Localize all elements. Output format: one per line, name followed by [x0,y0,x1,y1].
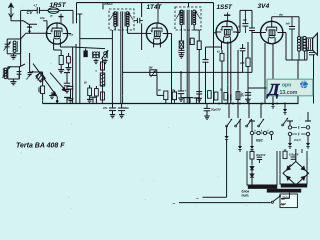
battery B2 [289,121,291,125]
gang link 2 [50,73,66,92]
power box 1 [247,151,277,185]
tube V4 3V4 [261,21,283,43]
svg-text:1M: 1M [149,66,154,70]
antenna [10,5,12,21]
IFT2 secondary [193,10,196,13]
svg-text:7t: 7t [50,14,52,18]
ground [58,69,64,71]
svg-text:пит.: пит. [242,193,250,197]
svg-text:20µ/15V: 20µ/15V [255,154,266,157]
resistor R7 [221,50,223,53]
wire [80,38,113,40]
wire [221,42,223,50]
resistor R4 [95,86,97,89]
ground [68,98,74,100]
osc trimmer [101,50,108,59]
core [186,10,188,104]
svg-text:3V4: 3V4 [258,3,270,10]
capacitor C7 [68,53,70,56]
wire [11,20,21,22]
capacitor C12 [196,91,202,93]
tuning gang C3 [6,39,8,54]
wire [156,75,158,95]
wire [102,57,104,104]
coil L3 [13,41,16,44]
resistor R2 [42,72,44,86]
speaker LS1 [307,38,313,50]
tube V1 1R5T [46,23,67,44]
trimmer C5 [68,85,74,87]
wire AF line [123,71,252,73]
IFT2 primary [180,10,183,13]
svg-text:10p: 10p [40,16,45,20]
core bar [248,185,277,188]
resistor R9 [214,92,218,100]
power switch S6 [271,201,273,203]
output transformer T3 [297,36,300,39]
wire [272,44,274,104]
svg-text:1R5T: 1R5T [50,2,67,9]
wire [313,96,315,104]
resistor R12 [251,149,253,151]
wire [214,32,217,34]
wire [53,43,55,50]
chassis cap [64,96,70,98]
svg-text:455kHz: 455kHz [103,3,113,6]
electrolytic C19 [206,104,208,109]
resistor R13 [284,149,286,151]
capacitor C21 [291,156,296,158]
wire grid [26,32,47,34]
svg-text:KBC: KBC [256,138,264,142]
tube V3 1S5T [216,21,238,43]
capacitor C10 [203,59,209,61]
wire [157,3,159,23]
wire [75,44,77,104]
wire [297,60,299,104]
capacitor C13 [180,72,182,90]
svg-text:1S5T: 1S5T [217,4,233,11]
wire [42,9,49,11]
wire [76,47,105,48]
wire [289,136,291,141]
capacitor C9 [136,18,138,23]
wire [179,202,271,204]
svg-text:40n: 40n [124,107,130,110]
resistor R10 [208,91,212,99]
coil L7 [100,73,104,86]
core bar [281,184,307,187]
wire [226,141,228,197]
wire [281,197,290,199]
wire [271,17,273,22]
wire [68,33,71,35]
trimmer arrows [176,11,181,19]
svg-text:10n: 10n [240,94,245,97]
wire [283,32,286,34]
wire [236,32,240,34]
svg-text:+: + [185,89,187,93]
wire [141,3,143,17]
IFT1 primary [114,12,117,15]
capacitor C27 [309,51,315,53]
ground [245,98,250,100]
wire [127,30,129,33]
power box 2 [280,151,307,184]
bridge rectifier [283,161,309,185]
capacitor C17 [112,104,114,108]
wire [193,25,195,30]
wire [239,120,241,144]
dot [56,100,59,103]
trimmer arrow [2,66,10,78]
capacitor C16 [291,17,293,26]
wire [221,43,223,47]
diode D1 [250,166,254,169]
svg-text:20µ/15V: 20µ/15V [210,108,221,112]
wire [21,34,26,39]
paper speckles [203,6,206,9]
resistor R3 [89,85,91,88]
grid cap C2 [29,24,31,33]
switch S5 [284,104,286,108]
svg-text:Terta BA 408 F: Terta BA 408 F [16,143,65,150]
IFT1 secondary [126,12,129,15]
dot [180,71,182,73]
wire [313,55,315,104]
label box [280,194,297,208]
wire [159,43,161,48]
wire [264,43,266,104]
capacitor C22 [244,10,246,23]
svg-text:4,7: 4,7 [33,4,38,8]
switch S2 [237,104,239,119]
capacitor C15 [245,92,251,94]
wire [21,21,37,24]
wire bottom bus [43,103,299,105]
wire [20,10,22,66]
wire [251,135,253,144]
svg-text:47n: 47n [102,107,108,110]
svg-text:3n9: 3n9 [286,22,291,25]
resistor R18 [190,38,194,44]
wire [251,170,253,174]
capacitor C8 [66,72,68,83]
IF transformer T1 box [109,9,134,30]
wire [188,3,190,7]
wire [30,71,43,73]
resistor R17 [224,92,228,100]
wire top bus [77,2,214,4]
wire [226,126,228,134]
IF transformer T2 box [175,7,201,30]
switch S3 [248,104,250,119]
trimmer arrows [110,12,115,20]
watermark badge [267,79,313,96]
chassis caps [181,97,187,99]
coupling cap C14 [251,10,253,27]
wire AVC [248,87,273,89]
svg-text:~: ~ [173,202,176,207]
grid cap top C6 [59,16,64,18]
wire [168,33,172,35]
wire [227,42,229,104]
resistor R5 [164,91,168,100]
coil L5 [85,49,87,51]
wire [153,43,155,48]
wire [79,14,81,104]
capacitor C18 [121,104,123,108]
wire [43,20,47,22]
wire [59,43,61,47]
capacitor C26 [180,48,182,50]
wire [114,27,116,30]
wire [237,50,239,104]
core bar lower [267,189,301,192]
osc transformer L6 [93,52,96,55]
wire [72,47,74,104]
tube V2 1T4T [146,23,167,44]
diode D2 [250,174,254,177]
svg-text:4n5: 4n5 [239,62,245,65]
trimmer C25 [179,41,183,48]
wire [59,9,73,11]
wire [180,25,182,41]
ground [51,92,53,95]
ground [10,81,16,83]
wire [19,64,25,67]
svg-text:13.com: 13.com [280,90,298,96]
resistor R14 [101,92,105,100]
dial drive link [33,64,57,97]
wire [21,9,36,11]
connector [272,101,274,103]
grid cap V3 [224,14,230,16]
wire [171,34,173,104]
resistor R16 [101,62,105,70]
core [120,11,122,103]
capacitor C28 [172,89,175,91]
wire [230,42,232,104]
switch S4 [260,104,262,119]
chassis cap [90,96,96,98]
wire [271,135,273,140]
capacitor C11 [240,47,246,49]
oscillator coil L4 [7,67,9,79]
wire [29,75,31,77]
wire [102,3,104,10]
capacitor C20 [251,159,253,165]
wire [298,51,300,60]
svg-text:1T4T: 1T4T [147,4,163,11]
wire [295,149,297,161]
switch S1 [228,104,230,119]
ground [66,67,72,69]
ground [11,55,17,57]
battery B1 KBS [251,120,253,131]
resistor R6 [197,41,201,50]
padder trimmer [26,71,33,80]
svg-text:100µ/8V: 100µ/8V [289,154,299,157]
capacitor C24 [227,94,229,100]
volume pot 1M [150,70,157,76]
svg-text:орн: орн [282,82,291,88]
resistor R11 [247,42,249,58]
wire [252,32,261,34]
svg-text:4n: 4n [157,89,161,92]
wire [304,51,306,60]
svg-text:ABP: ABP [280,202,287,206]
svg-text:100: 100 [243,19,248,22]
svg-text:220V: 220V [281,196,290,200]
junction dots [218,103,220,105]
wire [76,3,78,24]
capacitor C1 4p7 [36,7,38,13]
resistor R8 [236,92,240,100]
ferrite rod coil L1 [48,8,59,14]
svg-text:~: ~ [196,197,199,202]
capacitor C4 [17,71,22,73]
wire [72,10,74,23]
resistor R1 [60,50,62,56]
ground [179,54,184,56]
svg-text:4×1,5: 4×1,5 [293,138,301,142]
wire [29,53,31,72]
